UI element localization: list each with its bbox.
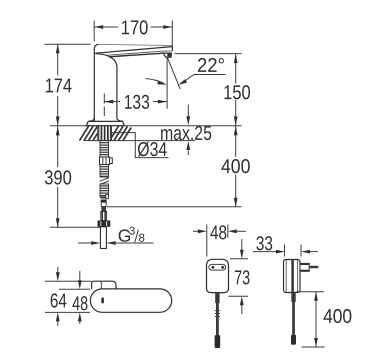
- svg-text:170: 170: [121, 17, 149, 39]
- angle arc arrow: [146, 79, 167, 85]
- counter bottom line: [84, 140, 196, 142]
- dimension 48 top view: [59, 271, 90, 324]
- shank end nut: [98, 221, 111, 227]
- spout top front edge: [94, 47, 172, 54]
- dimension 390 line: [50, 126, 100, 227]
- socket pin holes: [212, 266, 215, 269]
- spout underside: [109, 53, 163, 57]
- dimension 133: [104, 94, 167, 117]
- svg-text:133: 133: [124, 92, 150, 114]
- spout facet line: [108, 51, 173, 55]
- faucet outline: [86, 44, 172, 125]
- dimension 400 cable: [297, 292, 325, 347]
- dimension 174 line: [45, 44, 91, 125]
- hose white segment: [101, 202, 106, 206]
- dimension 150: [175, 54, 242, 126]
- plug pin: [309, 266, 318, 269]
- pipe break symbol: [100, 178, 110, 185]
- svg-text:390: 390: [44, 167, 72, 189]
- power supply front body: [207, 259, 229, 292]
- svg-text:150: 150: [223, 82, 251, 104]
- hose dark segment: [101, 207, 106, 212]
- dimension 64: [45, 267, 92, 326]
- hose crimp rings: [101, 195, 109, 203]
- fitting above nut: [101, 212, 107, 221]
- angle reference vertical line: [166, 57, 168, 109]
- pillar front edge with fillet: [96, 54, 123, 122]
- counter hatching left: [80, 126, 98, 140]
- front cable: [215, 293, 221, 348]
- label Ø34 with leader: [112, 133, 169, 158]
- dimension 170 line: [94, 21, 172, 46]
- counter top line: [50, 125, 242, 127]
- G3/8 nipple tube: [100, 227, 106, 249]
- dimension 400 faucet: [107, 126, 242, 207]
- dimension G3/8 arrows: [78, 241, 154, 245]
- svg-text:64: 64: [50, 290, 67, 312]
- label G3/8: [118, 226, 145, 246]
- threaded shank lower: [100, 184, 109, 197]
- aerator block: [163, 53, 171, 57]
- mounting nut: [100, 157, 113, 165]
- counter hatching right: [112, 126, 132, 140]
- back edge: [94, 44, 98, 121]
- dimension 33: [253, 245, 318, 257]
- threaded shank middle: [100, 165, 109, 178]
- top view sensor box: [92, 281, 116, 289]
- angle 22 line: [167, 57, 180, 89]
- counter hole edges: [97, 126, 99, 141]
- svg-text:22°: 22°: [197, 55, 225, 77]
- top view aerator dot: [101, 297, 104, 303]
- power supply side body: [284, 260, 301, 293]
- side cable: [291, 293, 296, 345]
- top view spout stadium: [90, 289, 171, 312]
- svg-text:48: 48: [72, 293, 88, 315]
- plug pin support: [300, 263, 309, 271]
- svg-text:73: 73: [234, 267, 250, 289]
- svg-text:33: 33: [256, 233, 273, 255]
- spout top back edge: [99, 44, 172, 45]
- svg-text:3: 3: [129, 226, 135, 238]
- svg-text:8: 8: [139, 233, 145, 245]
- svg-text:400: 400: [221, 156, 251, 178]
- svg-text:max.25: max.25: [160, 123, 212, 145]
- shank in hole: [99, 126, 111, 141]
- svg-text:174: 174: [45, 75, 73, 97]
- socket slot: [209, 264, 226, 270]
- base flare back: [89, 118, 95, 121]
- svg-text:48: 48: [210, 222, 227, 244]
- 22deg leader with arrow: [178, 75, 225, 85]
- svg-text:400: 400: [323, 306, 352, 328]
- dimension 48 power: [193, 225, 246, 257]
- dimension max.25: [186, 105, 190, 156]
- dimension 73: [229, 239, 249, 314]
- svg-text:Ø34: Ø34: [137, 139, 167, 161]
- threaded shank upper: [100, 141, 109, 157]
- spout tip face: [171, 46, 174, 51]
- escutcheon: [86, 121, 124, 125]
